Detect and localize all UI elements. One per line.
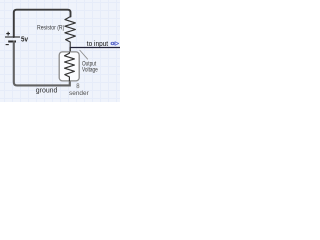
svg-text:to input: to input	[87, 41, 108, 48]
svg-text:sender: sender	[69, 90, 89, 97]
leader line for output voltage label	[80, 50, 88, 59]
battery + sign	[6, 32, 10, 36]
svg-text:Voltage: Voltage	[82, 66, 98, 73]
resistor R1 zigzag	[65, 17, 76, 48]
svg-text:Resistor (R): Resistor (R)	[37, 25, 64, 32]
wire left/bottom (ground return)	[14, 41, 70, 85]
output resistor box	[59, 52, 79, 81]
wire top loop (battery top to resistor R)	[14, 10, 71, 37]
svg-text:ground: ground	[36, 87, 58, 94]
grid	[0, 0, 120, 102]
svg-text:5v: 5v	[21, 37, 28, 44]
resistor R2 (output) zigzag	[65, 52, 75, 81]
battery B1 plates	[5, 36, 20, 38]
sender icon	[77, 84, 79, 88]
connector icon	[111, 42, 119, 46]
background	[0, 0, 120, 102]
wire junction down to output box	[69, 47, 71, 52]
battery - sign	[6, 44, 9, 46]
wire to input (branch)	[70, 47, 121, 49]
